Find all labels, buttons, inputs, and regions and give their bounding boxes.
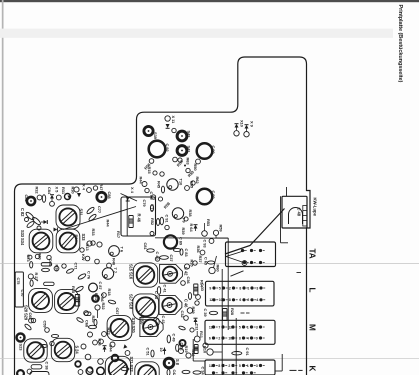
pad p16 (178, 158, 182, 162)
dash marks mid (241, 312, 245, 314)
svg-text:3: 3 (256, 325, 258, 329)
pad r1 (125, 351, 130, 356)
svg-text:R45: R45 (156, 181, 161, 189)
svg-text:R 27: R 27 (34, 273, 39, 282)
trimmer S21 (24, 339, 47, 362)
svg-text:C71: C71 (73, 263, 78, 271)
capacitor dark q2 (75, 361, 81, 367)
svg-text:C68: C68 (85, 320, 90, 328)
pad p12 (31, 318, 35, 322)
resistor R33 (87, 241, 92, 246)
svg-text:C 86: C 86 (100, 294, 105, 303)
page rule upper (0, 263, 419, 265)
trimmer S33 (29, 229, 53, 253)
svg-text:C 90: C 90 (211, 146, 216, 155)
svg-text:R18: R18 (107, 289, 112, 297)
connector C48 body (282, 196, 307, 228)
pad s1 (87, 188, 92, 193)
svg-text:Printplatte (Bestückungsseite): Printplatte (Bestückungsseite) (397, 5, 403, 83)
pad p19 (184, 217, 188, 221)
resistor R50 (196, 159, 201, 164)
trimmer S13 (133, 263, 157, 287)
svg-text:C 28: C 28 (154, 291, 159, 300)
svg-text:TA: TA (308, 249, 317, 259)
svg-text:10: 10 (159, 348, 163, 352)
capacitor C91b (232, 352, 242, 355)
svg-text:S15 S16: S15 S16 (128, 264, 133, 280)
pad p1 (35, 254, 39, 258)
pad p5 (28, 255, 32, 259)
capacitor C58 (121, 367, 129, 370)
resistor R11 (194, 336, 200, 342)
resistor R27 (28, 274, 33, 279)
transistor T9 (172, 208, 183, 219)
trimmer C46 (159, 296, 182, 315)
svg-text:R13: R13 (85, 244, 90, 252)
svg-text:R23: R23 (106, 328, 111, 336)
svg-text:9: 9 (256, 336, 258, 340)
resistor R53 (202, 231, 208, 237)
svg-text:C79: C79 (142, 200, 147, 208)
svg-text:8: 8 (229, 298, 231, 302)
wire horizontal y238 (155, 237, 228, 239)
wire pointer T11b (63, 207, 136, 230)
capacitor C41 (157, 287, 160, 295)
svg-text:X 9: X 9 (250, 121, 255, 128)
svg-text:R38: R38 (188, 210, 193, 218)
oval o9 (94, 320, 97, 326)
capacitor C81 (147, 249, 155, 252)
pad e (203, 343, 208, 348)
capacitor C92 (149, 141, 166, 158)
switch S42 (177, 131, 187, 141)
switch S41 (177, 146, 187, 156)
wire L block K (281, 354, 283, 371)
capacitor C51 (151, 350, 154, 357)
pad p20 (193, 261, 197, 265)
resistor R25 (75, 295, 79, 307)
capacitor C87 (89, 283, 98, 292)
header grey band (0, 29, 393, 38)
pad p14 (145, 188, 149, 192)
svg-text:C31: C31 (195, 324, 200, 332)
svg-text:S23: S23 (19, 344, 24, 352)
switch S39 (144, 126, 153, 135)
svg-text:C36: C36 (186, 277, 191, 285)
wire R11 leg (192, 339, 194, 361)
resistor R10 (207, 349, 213, 355)
svg-text:C 91: C 91 (164, 215, 169, 224)
svg-text:S 8: S 8 (175, 359, 180, 366)
pad p8 (62, 264, 66, 268)
dash below TA (297, 272, 302, 274)
svg-text:X 4: X 4 (82, 184, 87, 191)
capsule R24 (44, 282, 55, 285)
svg-text:X 4: X 4 (130, 187, 135, 194)
pad p17 (191, 181, 195, 185)
capacitor dark bl (17, 370, 24, 375)
svg-text:C81: C81 (143, 243, 148, 251)
switch S23 (17, 334, 25, 342)
tick left margin (0, 368, 1, 370)
capacitor C91 (160, 217, 163, 225)
svg-text:6: 6 (209, 336, 211, 340)
svg-text:C37: C37 (169, 255, 174, 263)
capacitor C85 (27, 197, 35, 205)
svg-text:C 93: C 93 (211, 191, 216, 200)
svg-text:11: 11 (209, 364, 213, 368)
trimmer S27 (29, 289, 53, 313)
svg-text:11: 11 (209, 325, 213, 329)
svg-text:5: 5 (219, 286, 221, 290)
svg-text:S42: S42 (187, 131, 192, 139)
oval o3 (76, 317, 84, 323)
svg-text:C 43: C 43 (161, 316, 166, 325)
tick near K (290, 369, 297, 371)
capacitor C76 (77, 273, 86, 280)
capacitor dark m (112, 355, 118, 361)
svg-text:S33: S33 (81, 234, 86, 242)
diode X7 (103, 346, 107, 350)
capacitor small (65, 194, 71, 200)
svg-text:R19: R19 (184, 346, 189, 354)
svg-text:C 48: C 48 (296, 208, 301, 217)
wire pointer to C48 (225, 209, 285, 255)
trimmer S34 (56, 229, 80, 253)
svg-text:R39: R39 (181, 228, 186, 236)
pad q1 (81, 344, 86, 349)
capacitor C38 (31, 365, 42, 369)
resistor R12 (186, 353, 191, 358)
svg-text:C 34: C 34 (200, 367, 205, 375)
svg-text:C75: C75 (16, 278, 21, 286)
svg-text:R32: R32 (35, 187, 40, 195)
trimmer S11 (133, 294, 159, 320)
pad p4 (50, 341, 54, 345)
connector block L (206, 281, 275, 306)
wire bus c (235, 318, 237, 375)
trimmer S19 (105, 356, 130, 375)
diode X5 (50, 195, 54, 199)
capacitor C86 (92, 295, 98, 301)
svg-text:R15: R15 (147, 167, 152, 175)
svg-text:7: 7 (218, 325, 220, 329)
trimmer C42 (160, 264, 183, 283)
svg-text:6: 6 (239, 298, 241, 302)
resistor R48 (107, 263, 112, 268)
svg-text:S39: S39 (153, 132, 158, 140)
resistor R19 (179, 349, 184, 354)
svg-text:R48: R48 (111, 258, 116, 266)
pad R44 (142, 182, 147, 187)
diode arrow (164, 348, 166, 355)
svg-text:4: 4 (247, 336, 249, 340)
pad p23 (184, 316, 189, 321)
svg-text:R 64: R 64 (189, 224, 194, 233)
resistor R31 (56, 195, 61, 200)
capacitor C88 (97, 192, 106, 201)
pad below S41 (173, 157, 178, 162)
svg-text:2: 2 (247, 298, 249, 302)
pad r3 (99, 339, 104, 344)
pad p174 (172, 128, 176, 132)
pad R43 (151, 195, 155, 199)
capacitor C40 (160, 256, 169, 260)
capacitor ring bl (97, 367, 105, 375)
pad on T11 box (150, 232, 154, 236)
capacitor C59 (51, 334, 58, 337)
svg-text:M: M (308, 324, 317, 331)
pad g (110, 342, 115, 347)
capacitor C93 (197, 189, 213, 205)
module T11 body (121, 197, 156, 236)
svg-text:R63: R63 (185, 158, 190, 166)
svg-text:C 83: C 83 (184, 249, 189, 258)
resistor R46 (129, 216, 133, 228)
svg-text:C 33: C 33 (200, 283, 205, 292)
svg-text:C84: C84 (47, 187, 52, 195)
pad p10 (84, 311, 89, 316)
svg-text:R25: R25 (71, 286, 76, 294)
capsule R24b (85, 312, 92, 316)
pad j (85, 354, 91, 360)
svg-text:C 87: C 87 (98, 282, 103, 291)
svg-text:C 91: C 91 (245, 348, 250, 357)
pad R27b (187, 308, 193, 314)
pad a (37, 195, 42, 200)
svg-text:R52: R52 (150, 218, 155, 226)
capacitor C49 (167, 335, 170, 343)
pad s2 (93, 186, 97, 190)
resistor R59 (213, 230, 218, 235)
pad p6 (27, 369, 32, 374)
svg-text:R59: R59 (219, 225, 224, 233)
wire pointer T11a (121, 194, 138, 202)
svg-text:12: 12 (209, 298, 213, 302)
svg-text:8: 8 (218, 364, 220, 368)
svg-text:C70: C70 (20, 290, 25, 297)
svg-text:S21 S22: S21 S22 (129, 357, 134, 373)
svg-text:C 49: C 49 (172, 334, 177, 343)
svg-text:5: 5 (239, 364, 241, 368)
pad p3 (45, 328, 50, 333)
transistor T7 (102, 268, 113, 279)
pad R49 (160, 172, 164, 176)
svg-text:K: K (308, 366, 317, 372)
diode X9 (245, 125, 249, 129)
capacitor C73 (30, 262, 33, 268)
resistor R58 (186, 168, 190, 172)
pad h (54, 266, 59, 271)
resistor R14 (194, 284, 198, 295)
transistor T10 (167, 179, 178, 190)
svg-text:S33 S34: S33 S34 (20, 230, 25, 246)
transistor T6 (109, 246, 120, 257)
svg-text:S17 S18: S17 S18 (128, 294, 133, 310)
connector block TA (226, 242, 276, 267)
svg-text:R22: R22 (101, 303, 106, 311)
wire C48 left leg (280, 196, 282, 243)
capacitor C74 (30, 280, 33, 286)
svg-text:5: 5 (239, 325, 241, 329)
connector C48 dome (289, 208, 303, 224)
svg-text:S41: S41 (187, 146, 192, 154)
capacitor C43 (156, 318, 159, 325)
trimmer S35 (56, 205, 80, 229)
pad p24 (190, 328, 194, 332)
oval o5 (150, 205, 153, 212)
trimmer C50 (140, 317, 163, 336)
svg-text:12: 12 (228, 325, 232, 329)
connector C48 pin ladder (303, 206, 307, 227)
diode X2 (54, 228, 58, 232)
capacitor C84 (42, 195, 45, 203)
resistor R55 (185, 186, 190, 191)
svg-text:C85: C85 (24, 195, 29, 203)
svg-text:T10: T10 (179, 179, 184, 186)
switch S8 (164, 358, 174, 368)
svg-text:R44: R44 (139, 177, 144, 185)
svg-text:R53: R53 (206, 219, 211, 227)
wire bus a (221, 269, 223, 375)
pad in block TA (242, 261, 247, 266)
diag below TA block (231, 271, 244, 276)
oval o8 (178, 325, 185, 330)
diode X8 (123, 344, 127, 348)
capacitor C68 (88, 325, 96, 328)
pad f (88, 332, 93, 337)
svg-text:X10: X10 (240, 120, 245, 128)
trimmer S9 (135, 362, 159, 375)
capacitor C66 (42, 268, 50, 271)
pad q3 (78, 370, 83, 375)
svg-text:L: L (308, 288, 317, 293)
svg-text:R 46: R 46 (136, 214, 141, 223)
pad k (87, 367, 93, 373)
svg-text:R62: R62 (195, 177, 200, 185)
svg-text:8: 8 (239, 286, 241, 290)
svg-text:R29: R29 (191, 307, 196, 315)
module bottom arc (30, 372, 49, 375)
svg-text:T 6: T 6 (119, 247, 124, 253)
svg-text:R50: R50 (193, 164, 198, 172)
svg-text:4: 4 (256, 298, 258, 302)
svg-text:2: 2 (229, 286, 231, 290)
capacitor C63 (24, 323, 32, 330)
svg-text:KW-Lupe: KW-Lupe (312, 198, 317, 217)
svg-text:9: 9 (209, 286, 211, 290)
svg-text:C32: C32 (180, 311, 185, 319)
pad p15 (158, 197, 162, 201)
oval o6 (173, 248, 180, 251)
svg-text:2: 2 (218, 336, 220, 340)
svg-text:R34: R34 (74, 235, 79, 243)
capacitor C89 (164, 235, 177, 248)
pad i (29, 318, 34, 323)
diode X3 (44, 220, 48, 224)
connector block K (205, 360, 275, 375)
wire V into block TA (226, 251, 245, 264)
capsule R20 (41, 263, 52, 266)
svg-text:R60: R60 (216, 265, 221, 273)
trimmer S28 (55, 290, 79, 314)
pad p2 (47, 255, 51, 259)
page left border (2, 0, 4, 375)
svg-text:2: 2 (228, 364, 230, 368)
capacitor C52 (176, 344, 179, 351)
resistor R22 (95, 305, 100, 310)
svg-text:S19 S20: S19 S20 (131, 318, 136, 334)
svg-text:1: 1 (247, 325, 249, 329)
svg-text:C 50: C 50 (139, 316, 144, 325)
svg-text:R30: R30 (70, 187, 75, 195)
wire R59 hook (215, 236, 217, 239)
pad group R16 (85, 256, 90, 261)
diode X4c (68, 196, 72, 200)
svg-text:C 41: C 41 (163, 285, 168, 294)
resistor R17 (97, 242, 102, 247)
pad n (86, 368, 93, 375)
connector block M (205, 320, 275, 344)
svg-text:R17: R17 (116, 231, 121, 239)
svg-text:C 42: C 42 (183, 267, 188, 276)
capacitor dark small (180, 340, 186, 346)
board outline (15, 57, 311, 375)
wire bus b (227, 238, 229, 330)
svg-text:C59: C59 (43, 321, 48, 329)
capacitor C77 (86, 206, 95, 214)
capacitor C42b (167, 369, 170, 375)
svg-text:3: 3 (256, 286, 258, 290)
wire C48 top stub (286, 187, 288, 196)
resistor R60 (209, 267, 215, 273)
page top border (0, 0, 419, 2)
page rule lower (0, 358, 419, 360)
svg-text:C 82: C 82 (20, 208, 25, 217)
svg-text:R11: R11 (199, 331, 204, 339)
diode X4 (74, 187, 79, 192)
resistor R35 (184, 264, 189, 269)
svg-text:X 5: X 5 (54, 187, 59, 194)
svg-text:10: 10 (228, 336, 232, 340)
svg-text:C 39: C 39 (203, 309, 208, 318)
svg-text:T 7: T 7 (113, 268, 118, 274)
svg-text:R28: R28 (230, 308, 235, 316)
oval o1 (66, 268, 74, 274)
svg-text:1: 1 (247, 286, 249, 290)
oval o4 (41, 345, 48, 348)
svg-text:C 38: C 38 (44, 362, 49, 371)
diode X11 (165, 116, 170, 121)
capacitor C34 (182, 370, 190, 373)
trimmer S22 (51, 338, 74, 361)
svg-text:C67: C67 (115, 308, 120, 316)
svg-text:R12: R12 (191, 350, 196, 358)
oval o2 (108, 299, 116, 304)
resistor R56 (149, 159, 154, 164)
svg-text:X 11: X 11 (171, 116, 176, 124)
pad p7 (80, 248, 84, 252)
pad p13 (153, 171, 157, 175)
svg-text:C88: C88 (107, 192, 112, 200)
pad p21 (181, 281, 186, 286)
pad p22 (195, 301, 199, 305)
svg-text:3: 3 (256, 364, 258, 368)
diode X10 (235, 124, 239, 128)
trimmer S17 (107, 316, 132, 341)
svg-text:R37: R37 (198, 256, 203, 264)
svg-text:S28 S29: S28 S29 (24, 305, 29, 321)
